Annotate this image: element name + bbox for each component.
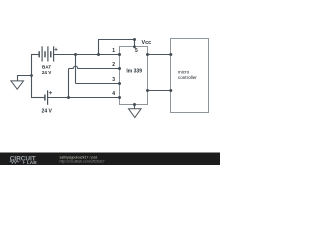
wire battery1 left lead — [31, 54, 39, 56]
wire riser to pin2 — [68, 69, 70, 98]
svg-text:24 V: 24 V — [42, 109, 53, 115]
battery2 plus sign — [49, 91, 52, 94]
svg-text:LAB: LAB — [27, 160, 37, 165]
battery2 24V plates — [45, 90, 48, 105]
battery BAT 24V plates — [39, 46, 53, 61]
wire output1 lm339 to micro — [148, 54, 171, 56]
wire ground1 tap — [18, 76, 33, 81]
wire vertical from node A down — [75, 55, 77, 84]
svg-text:1: 1 — [112, 48, 115, 54]
svg-text:24 V: 24 V — [42, 70, 52, 75]
wire 3 — [76, 83, 121, 85]
wire 2 with hop over vertical — [69, 66, 121, 68]
battery BAT 24V plus sign — [54, 48, 57, 51]
op-amp U1 lm339 box — [120, 47, 148, 105]
watermark bar — [0, 153, 220, 166]
wire left vertical (battery minus bus) — [31, 54, 33, 98]
wire Vcc riser — [99, 40, 135, 55]
ground (left) — [11, 81, 24, 89]
CircuitLab logo — [10, 155, 37, 166]
wire output2 lm339 to micro — [148, 90, 171, 92]
wire battery2 left lead — [31, 97, 45, 99]
svg-text:Vcc: Vcc — [142, 40, 152, 46]
micro controller box — [171, 39, 209, 113]
wire battery2 right lead to pin 4 — [48, 97, 120, 99]
svg-text:5: 5 — [135, 48, 138, 54]
svg-text:2: 2 — [112, 62, 115, 68]
labels — [42, 40, 198, 115]
logo resistor zigzag — [10, 160, 19, 163]
svg-text:lm 339: lm 339 — [126, 69, 142, 75]
logo lightning bolt — [23, 160, 25, 164]
svg-text:4: 4 — [112, 91, 115, 97]
svg-text:controller: controller — [178, 75, 197, 80]
svg-text:micro: micro — [178, 70, 190, 75]
ground (below lm339) — [129, 109, 142, 118]
svg-text:http://circuitlab.com/c/5z53c7: http://circuitlab.com/c/5z53c7 — [60, 159, 105, 163]
svg-text:3: 3 — [112, 77, 115, 83]
wire battery1 right lead to pin 1 — [54, 54, 120, 56]
wire ground2 stem — [134, 105, 136, 109]
node dots — [30, 38, 172, 106]
